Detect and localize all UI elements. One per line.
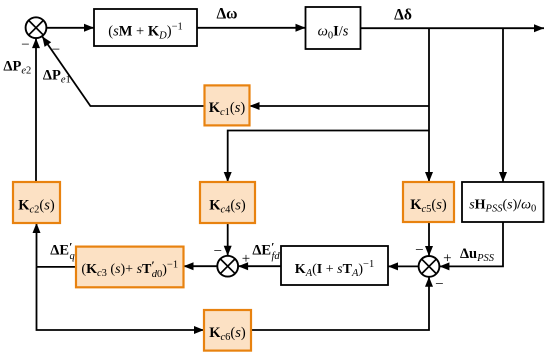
svg-text:(sM + KD)−1: (sM + KD)−1 bbox=[108, 21, 183, 41]
svg-text:−: − bbox=[52, 42, 60, 58]
svg-text:+: + bbox=[242, 251, 250, 267]
svg-text:ΔE′fd: ΔE′fd bbox=[252, 240, 280, 263]
svg-text:Δδ: Δδ bbox=[394, 7, 412, 24]
svg-text:−: − bbox=[415, 243, 423, 259]
svg-text:+: + bbox=[443, 251, 451, 267]
svg-text:sHPSS(s)/ω0: sHPSS(s)/ω0 bbox=[469, 198, 536, 215]
svg-text:−: − bbox=[214, 244, 222, 260]
svg-text:−: − bbox=[435, 277, 443, 293]
svg-text:ΔPe2: ΔPe2 bbox=[3, 59, 31, 77]
svg-text:Δω: Δω bbox=[216, 5, 237, 22]
svg-text:ΔuPSS: ΔuPSS bbox=[460, 246, 495, 264]
svg-text:ω0I/s: ω0I/s bbox=[318, 23, 349, 41]
svg-text:ΔE′q: ΔE′q bbox=[50, 239, 74, 261]
svg-text:−: − bbox=[21, 37, 29, 53]
